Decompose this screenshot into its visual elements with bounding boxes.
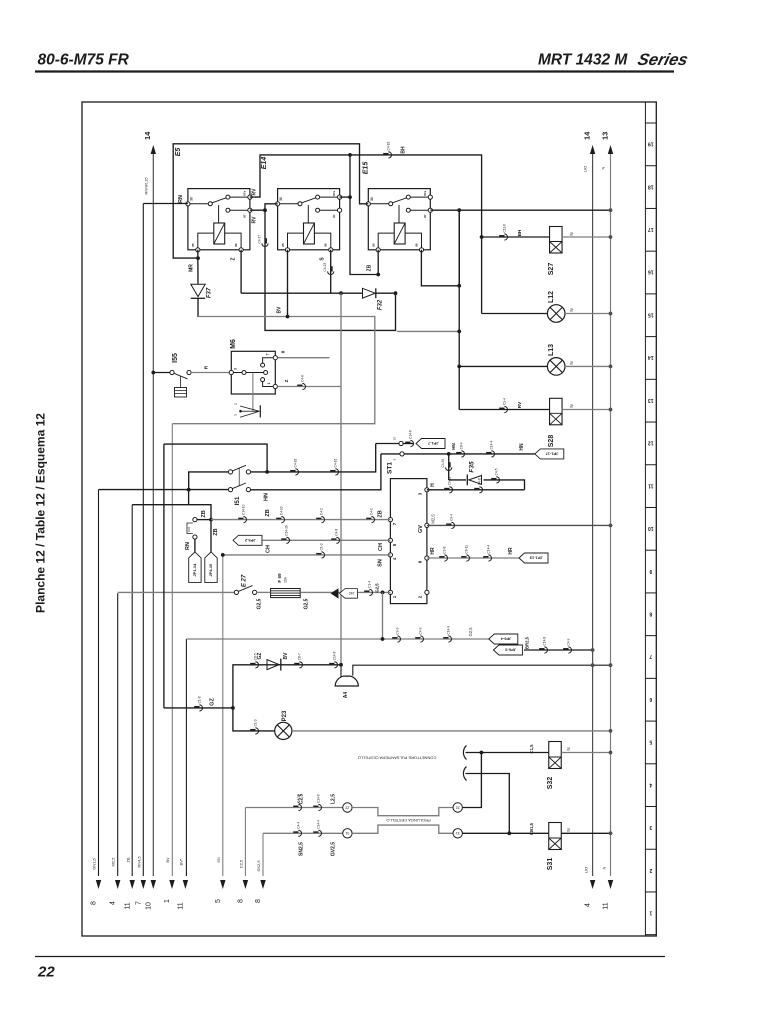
svg-text:86: 86	[234, 243, 238, 247]
svg-text:N: N	[566, 828, 571, 831]
svg-text:85: 85	[191, 243, 195, 247]
svg-text:19: 19	[648, 141, 654, 147]
wire E5 net	[173, 144, 368, 258]
pin connector 9	[400, 452, 404, 456]
svg-text:ST1: ST1	[387, 462, 394, 474]
svg-text:4: 4	[585, 903, 592, 907]
svg-text:RNNR,15: RNNR,15	[144, 177, 149, 195]
svg-text:L2,5: L2,5	[331, 794, 337, 804]
svg-text:5: 5	[649, 739, 652, 745]
svg-text:13: 13	[601, 132, 610, 140]
svg-text:C4-16: C4-16	[334, 458, 338, 467]
wire S28 row	[459, 409, 550, 411]
wire I51 lower right	[250, 454, 381, 490]
buzzer S28	[550, 398, 563, 425]
svg-text:11: 11	[603, 902, 610, 909]
svg-text:C9-4: C9-4	[450, 514, 454, 521]
svg-text:1: 1	[649, 910, 652, 916]
svg-text:87a: 87a	[423, 190, 427, 195]
svg-text:8: 8	[649, 610, 652, 616]
wire JP6-3 row	[524, 649, 593, 651]
svg-text:G2,5: G2,5	[468, 627, 473, 637]
wire relay1 86 Z down	[240, 250, 242, 293]
header rule	[35, 70, 674, 72]
tag JP6-4	[489, 634, 518, 644]
wire 22R to arc	[462, 753, 481, 808]
svg-text:6: 6	[649, 696, 652, 702]
svg-text:16: 16	[648, 269, 654, 275]
svg-text:C14-4: C14-4	[490, 440, 494, 449]
svg-text:F32: F32	[378, 299, 384, 310]
svg-text:G2,5: G2,5	[257, 598, 263, 609]
wire M6 pin1	[277, 386, 341, 388]
svg-text:HR: HR	[430, 547, 436, 555]
svg-text:N: N	[566, 747, 571, 750]
svg-text:C14-10: C14-10	[242, 504, 246, 515]
wire P23 to N	[292, 730, 611, 732]
wire GZ up to diode row	[233, 665, 341, 708]
svg-text:C11-6: C11-6	[503, 224, 507, 233]
svg-text:RN: RN	[178, 195, 184, 203]
pin connector RN lower	[193, 535, 197, 539]
svg-text:7: 7	[266, 354, 270, 356]
arc connector upper	[463, 746, 466, 760]
svg-text:ZB: ZB	[378, 510, 384, 517]
wire S28 to N	[562, 409, 611, 411]
motor M6 box	[231, 351, 275, 394]
svg-text:240: 240	[349, 591, 355, 595]
svg-text:87: 87	[332, 214, 336, 218]
svg-text:86: 86	[414, 243, 418, 247]
wire HN row	[404, 453, 535, 455]
pin connector 10	[399, 441, 403, 445]
svg-text:P23: P23	[282, 710, 288, 721]
break C4-17	[265, 238, 267, 243]
svg-text:PROLUNGA CESTELLO: PROLUNGA CESTELLO	[386, 818, 430, 823]
svg-text:10: 10	[648, 525, 654, 531]
svg-text:C4-18: C4-18	[294, 458, 298, 467]
svg-text:Z: Z	[284, 379, 289, 382]
svg-text:BV: BV	[165, 857, 170, 863]
svg-text:7: 7	[136, 901, 143, 905]
footer rule	[35, 956, 665, 958]
svg-text:C8-4: C8-4	[460, 442, 464, 449]
svg-text:C9-8: C9-8	[443, 546, 447, 553]
bus ZB	[131, 505, 133, 876]
tag JP1-17	[535, 449, 564, 459]
svg-text:CH: CH	[266, 545, 272, 553]
svg-text:SN: SN	[216, 857, 221, 863]
horn A4	[341, 665, 611, 677]
svg-text:BH: BH	[401, 146, 407, 154]
break C4-23	[331, 266, 333, 271]
tag JP1-14	[189, 552, 201, 583]
pin circle 31 right	[453, 829, 462, 838]
svg-text:C14-16: C14-16	[285, 525, 289, 536]
svg-text:SN2,5: SN2,5	[299, 842, 305, 856]
svg-text:1: 1	[267, 383, 271, 385]
svg-text:JP1-17: JP1-17	[545, 451, 559, 456]
bus C2.5	[244, 808, 246, 877]
wire ZB to tag JP4-10	[210, 520, 212, 552]
svg-text:Planche 12 / Table 12 / Esquem: Planche 12 / Table 12 / Esquema 12	[34, 413, 48, 613]
wire S31 to N	[561, 832, 610, 834]
svg-text:C9-9: C9-9	[396, 627, 400, 634]
wire row ZB pin7	[211, 519, 390, 521]
svg-text:7: 7	[649, 653, 652, 659]
bottom arrow RN4.5 / 7	[141, 880, 146, 889]
tag JP1-13	[519, 553, 548, 563]
svg-text:4: 4	[110, 901, 117, 905]
bus M2.5	[117, 593, 119, 876]
wire L13 to N	[565, 365, 611, 367]
wire F35 loop	[448, 454, 450, 480]
wire BH drop to S27	[480, 235, 484, 239]
svg-text:14: 14	[583, 131, 592, 140]
svg-text:C1-0: C1-0	[254, 719, 258, 726]
svg-text:GN1,5: GN1,5	[92, 857, 97, 869]
svg-text:S27: S27	[548, 263, 555, 276]
svg-text:F37: F37	[207, 287, 213, 298]
switch I55	[153, 372, 170, 374]
pin circle 31 left	[343, 829, 352, 838]
svg-text:8: 8	[255, 899, 262, 903]
svg-text:C14-4: C14-4	[317, 820, 321, 829]
svg-text:G2,5: G2,5	[303, 598, 309, 609]
wire arc upper to S32	[466, 752, 550, 754]
svg-text:H: H	[430, 483, 436, 487]
wire HR row	[427, 557, 519, 559]
svg-text:C2,5: C2,5	[299, 794, 305, 805]
wire Z/F32 row	[241, 292, 362, 294]
pin circle 22 left	[343, 803, 352, 812]
diode F32	[363, 288, 376, 298]
svg-text:RN4,5: RN4,5	[137, 856, 142, 868]
svg-text:LIO: LIO	[584, 867, 589, 873]
wire relay1 85 down	[197, 250, 199, 284]
svg-text:BV*: BV*	[178, 858, 183, 865]
svg-text:22: 22	[456, 805, 460, 809]
wire RV net	[250, 204, 278, 210]
wire I51 upper left	[189, 472, 229, 490]
svg-text:C4-5: C4-5	[495, 468, 499, 475]
svg-text:JP1-13: JP1-13	[529, 556, 543, 561]
svg-text:HN: HN	[264, 493, 270, 501]
svg-text:13: 13	[648, 397, 654, 403]
svg-text:C14-6: C14-6	[409, 430, 413, 439]
wire BV row h1	[172, 317, 374, 424]
svg-text:11: 11	[177, 902, 184, 909]
svg-text:S32: S32	[547, 777, 554, 790]
fuse F59	[271, 589, 301, 598]
wire L12 to N	[565, 313, 611, 315]
svg-text:N: N	[569, 404, 574, 407]
wire S27 row	[482, 236, 550, 238]
svg-text:E 27: E 27	[242, 574, 248, 587]
bus GN1.5	[98, 490, 100, 876]
svg-text:E14: E14	[261, 157, 268, 170]
svg-text:8: 8	[237, 899, 244, 903]
svg-text:3: 3	[649, 824, 652, 830]
wire GV row	[427, 524, 611, 526]
wire relay2 85 down	[287, 250, 289, 317]
svg-text:80-6-M75 FR: 80-6-M75 FR	[38, 52, 130, 69]
break C4-18 on BH	[383, 153, 388, 155]
diode F37	[191, 284, 205, 296]
svg-text:C9-11: C9-11	[448, 477, 452, 486]
svg-text:N: N	[601, 166, 606, 169]
buzzer S31	[549, 823, 562, 850]
svg-text:C14-4: C14-4	[487, 545, 491, 554]
svg-text:M2,5: M2,5	[111, 857, 116, 867]
svg-text:GZ: GZ	[257, 653, 263, 660]
wire L13 row	[459, 365, 547, 367]
svg-text:C14-8: C14-8	[317, 794, 321, 803]
wire L13 feed vertical	[458, 210, 460, 409]
buzzer S27	[550, 227, 563, 254]
horn marker 240	[331, 588, 339, 598]
svg-text:C1-8: C1-8	[198, 696, 202, 703]
svg-text:18: 18	[648, 183, 654, 189]
svg-text:C1-0: C1-0	[320, 543, 324, 550]
svg-text:C4-9: C4-9	[567, 638, 571, 645]
relay E15 box	[368, 189, 430, 250]
junction ZB	[209, 518, 213, 522]
lamp L12	[547, 305, 565, 323]
svg-text:F 59: F 59	[277, 573, 282, 583]
bus RN4.5 vertical	[142, 204, 144, 877]
schematic frame	[82, 102, 656, 936]
wire 87-row to N	[431, 209, 611, 211]
bus N vertical	[610, 154, 612, 876]
svg-text:S28: S28	[548, 435, 555, 448]
svg-text:A4: A4	[343, 692, 349, 699]
wire ZB bus corner	[132, 504, 188, 506]
wire F59 to pin1	[300, 591, 390, 593]
wire relay3 85 ZB	[377, 250, 379, 275]
svg-text:JP1-7: JP1-7	[427, 441, 438, 446]
wire relay2 86 down	[330, 250, 332, 293]
svg-text:30: 30	[189, 197, 193, 201]
svg-text:GV: GV	[418, 525, 424, 533]
wire 31R join	[462, 832, 509, 834]
wire row SN pin4	[223, 554, 391, 556]
relay E14 box	[278, 189, 340, 250]
svg-text:11: 11	[125, 902, 132, 909]
svg-text:C4-8: C4-8	[335, 529, 339, 536]
svg-text:N: N	[602, 866, 607, 869]
wire E14/BH net	[250, 155, 482, 314]
svg-text:BR2,5: BR2,5	[525, 636, 530, 649]
wire relay3 86 down	[421, 210, 459, 286]
svg-text:4: 4	[649, 781, 652, 787]
buzzer S32	[549, 742, 562, 769]
svg-text:ZB: ZB	[213, 528, 219, 535]
svg-text:G2,5: G2,5	[375, 583, 380, 593]
svg-text:ZB: ZB	[201, 510, 207, 517]
svg-text:SN2,5: SN2,5	[256, 860, 261, 872]
svg-text:HR: HR	[508, 547, 514, 555]
tag JP5-2	[233, 535, 262, 545]
svg-text:C8-7: C8-7	[298, 653, 302, 660]
svg-text:I55: I55	[172, 353, 179, 363]
svg-text:C4-1: C4-1	[370, 508, 374, 515]
svg-text:MRT 1432 M: MRT 1432 M	[538, 52, 628, 69]
wire L12 row	[482, 313, 548, 315]
svg-text:1: 1	[234, 414, 238, 416]
svg-text:C4-18: C4-18	[387, 141, 391, 150]
svg-text:FR4: FR4	[187, 526, 191, 531]
svg-text:10: 10	[146, 902, 153, 910]
wire S31 row	[509, 832, 549, 834]
bus SN	[222, 555, 224, 876]
svg-text:31: 31	[456, 831, 460, 835]
svg-text:14: 14	[648, 354, 654, 360]
svg-text:10A: 10A	[284, 576, 288, 583]
svg-text:17: 17	[648, 226, 654, 232]
wire pin2 to JP6-4	[382, 592, 384, 639]
svg-text:E15: E15	[363, 162, 370, 175]
svg-text:M6: M6	[230, 339, 237, 349]
svg-text:C4-6: C4-6	[301, 375, 305, 382]
junction BV	[286, 315, 290, 319]
svg-text:Series: Series	[636, 50, 690, 69]
junction M6 feed	[339, 291, 343, 295]
svg-text:31: 31	[345, 831, 349, 835]
svg-text:HN: HN	[451, 443, 456, 450]
tag JP4-10	[205, 552, 217, 583]
svg-text:CONNETTORE PULSANTIERA CESTELL: CONNETTORE PULSANTIERA CESTELLO	[358, 756, 437, 761]
wire I51 upper contact row	[250, 444, 375, 472]
svg-text:C14-8: C14-8	[333, 651, 337, 660]
wire C2.5 row	[245, 807, 342, 809]
svg-text:87: 87	[242, 214, 246, 218]
wire RN to relay1 pin30	[143, 203, 188, 205]
svg-text:14: 14	[143, 131, 152, 140]
svg-text:C14-8: C14-8	[543, 637, 547, 646]
wire prolunga top	[352, 808, 453, 816]
svg-text:C4-17: C4-17	[258, 235, 262, 244]
svg-text:HN: HN	[519, 443, 525, 451]
svg-text:ZB: ZB	[367, 264, 373, 271]
svg-text:L13: L13	[548, 344, 555, 356]
svg-text:GZ: GZ	[210, 698, 216, 706]
wire JP1-7 row	[403, 443, 414, 445]
svg-text:85: 85	[372, 243, 376, 247]
wire M6 pin7	[277, 357, 329, 359]
svg-text:BV: BV	[283, 652, 289, 660]
svg-text:C2,5: C2,5	[238, 859, 243, 868]
svg-text:ZB: ZB	[265, 509, 271, 516]
junction relay2 coil feed	[348, 153, 352, 157]
svg-text:87a: 87a	[332, 190, 336, 195]
svg-text:MR: MR	[189, 264, 195, 272]
switch I51	[228, 470, 232, 474]
svg-text:C4-2: C4-2	[320, 508, 324, 515]
svg-text:C1-4: C1-4	[368, 581, 372, 588]
pin circle 22 right	[453, 803, 462, 812]
svg-text:C4-23: C4-23	[323, 263, 327, 272]
svg-text:F35: F35	[469, 461, 476, 473]
svg-text:12: 12	[648, 440, 654, 446]
wire P23 row	[233, 708, 275, 731]
bus LIO vertical	[592, 154, 594, 876]
svg-text:2: 2	[234, 403, 238, 405]
lamp L13	[547, 358, 565, 376]
svg-text:87a: 87a	[242, 190, 246, 195]
svg-text:CB1,5: CB1,5	[529, 822, 534, 835]
wire E27 to F59	[257, 591, 271, 593]
relay E5 box	[188, 189, 250, 250]
terminal strip 19..1	[644, 102, 646, 936]
svg-text:22: 22	[345, 805, 349, 809]
switch E27	[234, 590, 238, 594]
svg-text:BV: BV	[277, 306, 283, 314]
arc connector lower	[463, 767, 466, 781]
svg-text:1: 1	[164, 899, 171, 903]
svg-text:L12: L12	[548, 291, 555, 303]
svg-text:C4-34: C4-34	[441, 459, 445, 468]
svg-text:RV: RV	[252, 188, 258, 196]
diode F35	[469, 476, 482, 485]
svg-text:N: N	[569, 308, 574, 311]
svg-text:2: 2	[649, 867, 652, 873]
wire pin3 row	[427, 489, 525, 491]
wire GZ row	[164, 707, 233, 709]
wire row I51 feed	[99, 489, 229, 491]
svg-text:RV: RV	[252, 216, 258, 224]
svg-text:I51: I51	[234, 496, 241, 505]
svg-text:E5: E5	[175, 148, 182, 157]
wire I55 to M6	[191, 372, 229, 374]
svg-text:M2,5: M2,5	[431, 514, 436, 524]
svg-text:C1,5: C1,5	[529, 744, 534, 754]
connector ST1 box	[390, 479, 427, 604]
junction I55 on RNNR bus	[151, 371, 155, 375]
svg-text:N: N	[569, 361, 574, 364]
wire row CH pin5	[261, 539, 390, 541]
svg-text:C6-11: C6-11	[465, 545, 469, 554]
svg-text:ZB: ZB	[126, 857, 131, 862]
wire S32 to N	[561, 752, 610, 754]
svg-text:86: 86	[324, 243, 328, 247]
junction MR	[196, 256, 200, 260]
svg-text:8: 8	[91, 901, 98, 905]
pin connector RN upper	[197, 519, 211, 521]
svg-text:5: 5	[215, 899, 222, 903]
svg-text:JP6-3: JP6-3	[505, 648, 516, 653]
wire SN2.5 row	[263, 832, 343, 834]
svg-text:BH: BH	[517, 230, 522, 237]
tag JP1-7	[416, 439, 445, 449]
svg-text:C9-4: C9-4	[503, 398, 507, 405]
svg-text:CH: CH	[378, 543, 384, 551]
diode GZ	[267, 660, 279, 670]
junction GZ	[231, 706, 235, 710]
svg-text:30: 30	[279, 197, 283, 201]
svg-text:GV2,5: GV2,5	[331, 842, 337, 856]
svg-text:N: N	[569, 232, 574, 235]
bus SN2.5	[262, 833, 264, 876]
svg-text:3: 3	[233, 368, 237, 370]
svg-text:JP5-2: JP5-2	[244, 538, 255, 543]
svg-text:SN: SN	[378, 559, 384, 567]
bus BV*	[185, 639, 187, 876]
svg-text:C4-4: C4-4	[297, 822, 301, 829]
svg-text:22: 22	[37, 964, 55, 981]
tag JP6-3	[493, 645, 522, 655]
svg-text:LIO: LIO	[583, 166, 588, 172]
